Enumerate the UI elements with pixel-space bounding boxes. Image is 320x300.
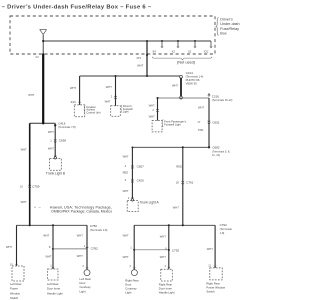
svg-text:WHT: WHT <box>6 245 12 249</box>
svg-text:1-8): 1-8) <box>220 231 225 235</box>
svg-text:Door Inner: Door Inner <box>47 287 60 291</box>
svg-text:WHT: WHT <box>28 93 34 97</box>
svg-text:Switch: Switch <box>206 289 215 293</box>
svg-text:Window: Window <box>10 291 21 295</box>
svg-text:S2: S2 <box>188 50 192 54</box>
svg-text:VIEW 30: VIEW 30 <box>186 82 197 86</box>
svg-text:C750: C750 <box>90 224 98 228</box>
svg-text:– Driver’s Under-dash Fuse/Rel: – Driver’s Under-dash Fuse/Relay Box – F… <box>2 5 152 11</box>
svg-text:WHT: WHT <box>198 105 204 109</box>
svg-text:Handle Light: Handle Light <box>159 290 175 294</box>
svg-text:WHT: WHT <box>43 233 49 237</box>
svg-text:WHT: WHT <box>48 130 54 134</box>
svg-text:Driver’s: Driver’s <box>220 18 233 22</box>
svg-text:WHT: WHT <box>207 247 213 251</box>
svg-text:11, 12): 11, 12) <box>212 153 220 157</box>
svg-text:Handle Light: Handle Light <box>47 291 63 295</box>
svg-text:Light: Light <box>80 289 86 293</box>
svg-text:9/10: 9/10 <box>71 100 77 104</box>
svg-text:WHT: WHT <box>160 255 166 259</box>
svg-text:Under-dash: Under-dash <box>220 22 239 26</box>
svg-text:–: – <box>39 206 41 210</box>
svg-text:RED: RED <box>123 170 129 174</box>
svg-text:C657: C657 <box>137 164 145 168</box>
svg-text:18: 18 <box>176 181 179 185</box>
svg-text:(Terminals 10-12): (Terminals 10-12) <box>212 98 233 102</box>
svg-text:WHT: WHT <box>21 148 27 152</box>
svg-text:(Terminals 7,8): (Terminals 7,8) <box>58 125 76 129</box>
svg-text:C651: C651 <box>212 120 220 124</box>
svg-text:Switch: Switch <box>10 296 19 300</box>
svg-text:Control Unit: Control Unit <box>86 111 100 115</box>
svg-text:M 5: M 5 <box>137 56 142 60</box>
svg-text:Light: Light <box>125 290 131 294</box>
svg-text:WHT: WHT <box>149 114 155 118</box>
svg-text:(Terminals 5, 8,: (Terminals 5, 8, <box>212 149 230 153</box>
svg-text:Front Passenger’s: Front Passenger’s <box>164 119 187 123</box>
svg-text:Power: Power <box>10 287 18 291</box>
svg-text:Light: Light <box>123 110 129 114</box>
svg-text:C682: C682 <box>212 146 220 150</box>
svg-text:Left Rear: Left Rear <box>47 282 59 286</box>
svg-text:WHT: WHT <box>106 85 112 89</box>
svg-text:OMBG/PAX Package; Canada, Mexi: OMBG/PAX Package; Canada, Mexico <box>51 210 112 214</box>
svg-text:WHT: WHT <box>77 254 83 258</box>
svg-text:PNK: PNK <box>198 128 204 132</box>
svg-text:C782: C782 <box>91 246 99 250</box>
svg-text:(Terminals 1-8): (Terminals 1-8) <box>90 228 108 232</box>
svg-text:WHT: WHT <box>123 233 129 237</box>
svg-text:WHT: WHT <box>160 234 166 238</box>
svg-text:K2: K2 <box>172 50 176 54</box>
svg-text:Trunk Light A: Trunk Light A <box>140 201 160 205</box>
svg-text:Footwell Light: Footwell Light <box>164 123 181 127</box>
svg-text:WHT: WHT <box>77 233 83 237</box>
svg-text:(Terminals: (Terminals <box>220 227 233 231</box>
svg-text:X22: X22 <box>204 50 209 54</box>
svg-text:WHT: WHT <box>173 205 179 209</box>
svg-text:C792: C792 <box>220 223 228 227</box>
svg-text:C759: C759 <box>32 184 40 188</box>
svg-text:WHT: WHT <box>21 200 27 204</box>
svg-text:C791: C791 <box>186 181 194 185</box>
svg-text:WHT: WHT <box>123 255 129 259</box>
svg-text:C792: C792 <box>172 249 180 253</box>
svg-text:WHT: WHT <box>105 100 111 104</box>
svg-text:(Not used): (Not used) <box>177 59 196 64</box>
svg-text:C214: C214 <box>186 71 194 75</box>
svg-text:WHT: WHT <box>123 154 129 158</box>
svg-text:WHT: WHT <box>46 255 52 259</box>
svg-text:WHT: WHT <box>149 104 155 108</box>
svg-text:Trunk Light B: Trunk Light B <box>46 172 65 176</box>
svg-text:E4: E4 <box>153 50 157 54</box>
svg-text:Box: Box <box>220 32 227 36</box>
svg-text:Left Rear: Left Rear <box>10 282 22 286</box>
svg-text:C416: C416 <box>58 122 66 126</box>
svg-text:WHT: WHT <box>70 86 76 90</box>
svg-text:C216: C216 <box>212 94 220 98</box>
svg-text:WHT: WHT <box>172 84 178 88</box>
svg-text:RED: RED <box>176 164 182 168</box>
svg-text:WHT: WHT <box>137 63 143 67</box>
svg-text:C638: C638 <box>59 138 67 142</box>
svg-text:C420: C420 <box>137 178 145 182</box>
svg-text:WHT: WHT <box>123 189 129 193</box>
svg-text:F2: F2 <box>36 55 40 59</box>
svg-text:Fuse/Relay: Fuse/Relay <box>220 27 239 31</box>
svg-text:WHT: WHT <box>48 147 54 151</box>
